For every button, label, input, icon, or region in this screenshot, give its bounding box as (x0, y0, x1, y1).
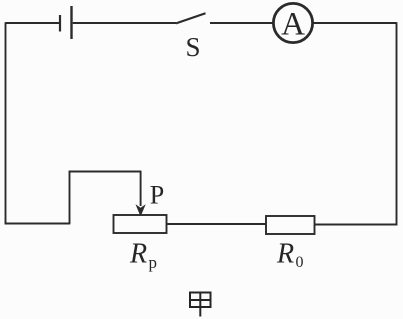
rheostat Rp box (114, 215, 167, 233)
wire ammeter to top-right corner (313, 22, 397, 24)
wire bottom-left segment (5, 223, 70, 225)
svg-text:A: A (281, 7, 305, 43)
wire slider step up (69, 172, 71, 225)
switch S lever (176, 13, 206, 23)
battery cell: long plate (70, 6, 72, 39)
svg-text:0: 0 (296, 254, 304, 271)
wire left vertical (5, 22, 7, 224)
wire slider arrow stem (140, 171, 142, 206)
resistor R0 box (266, 216, 315, 234)
wire slider step across (69, 171, 141, 173)
svg-text:S: S (185, 32, 200, 62)
wire R0 to Rp (167, 223, 267, 225)
wire battery to switch (73, 22, 176, 24)
wire bottom-right segment (315, 224, 398, 226)
rheostat slider arrowhead P (136, 204, 146, 215)
wire right vertical (396, 22, 398, 225)
svg-text:p: p (149, 253, 158, 272)
wire switch to ammeter (210, 22, 273, 24)
wire top-left segment (6, 22, 60, 24)
ammeter A circle (273, 3, 312, 42)
svg-text:R: R (276, 239, 294, 270)
svg-text:R: R (129, 239, 147, 270)
caption 甲 (drawn glyph) (190, 292, 211, 317)
svg-text:P: P (150, 181, 164, 210)
battery cell: short plate (59, 15, 61, 32)
